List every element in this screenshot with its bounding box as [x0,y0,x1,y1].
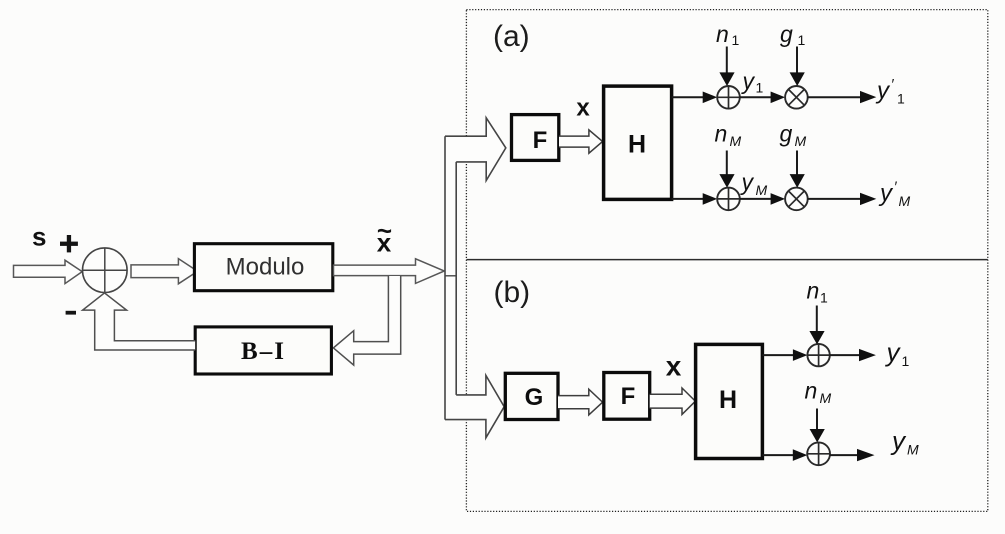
wire: G to F arrow (b) [558,389,603,415]
plus sign at summing junction [60,235,78,252]
label nM (a) [715,121,742,150]
wire: H to adder row1 (a) [672,92,718,104]
svg-text:n: n [715,121,728,147]
svg-text:y: y [740,169,755,195]
svg-text:(b): (b) [494,276,531,309]
svg-text:y: y [741,68,756,94]
svg-text:x: x [576,95,590,122]
svg-text:M: M [795,133,807,149]
block H (b) [696,344,763,458]
svg-text:y: y [885,337,902,367]
wire: n1 arrow down (b) [809,306,824,345]
label g1 (a) [780,21,806,48]
svg-text:B–I: B–I [241,338,286,365]
svg-text:x: x [666,351,682,382]
multiplier circle rowM (a) [785,188,808,211]
multiplier circle row1 (a) [785,86,808,109]
block G (b) [505,373,558,419]
svg-text:n: n [805,378,818,404]
label y'1 (a) [875,76,905,107]
label x (a) [576,95,590,122]
label n1 (a) [716,21,740,48]
summing junction circle with plus cross [83,248,128,293]
wire: adder output rowM (b) [830,449,875,461]
wire: B-I output up into summing junction (minus input) [83,293,196,350]
wire: F to H arrow (a) [559,130,603,153]
block H (a) [604,86,672,199]
label gM (a) [780,121,807,150]
node s label [32,222,46,252]
svg-text:1: 1 [897,91,905,107]
wire: Modulo to branch trunk arrow [334,259,445,284]
wire: summing junction to Modulo arrow [131,259,198,284]
wire: nM arrow down (b) [810,409,825,443]
svg-text:H: H [628,131,646,159]
wire: adder to multiplier row1 (a) [740,92,785,104]
svg-text:1: 1 [732,32,740,48]
svg-text:1: 1 [756,80,764,96]
label y1 (a) [741,68,764,96]
svg-text:x: x [377,228,392,258]
svg-text:s: s [32,222,46,252]
svg-text:H: H [719,386,737,414]
svg-text:n: n [807,278,820,304]
wire: branch trunk vertical lines [445,136,456,419]
svg-text:Modulo: Modulo [226,253,305,280]
svg-text:M: M [899,193,911,209]
svg-text:M: M [756,182,768,198]
block B-I [195,327,331,374]
wire: branch arrow into (a) [445,118,506,181]
svg-text:′: ′ [892,76,895,93]
label y1 (b) [885,337,910,369]
dotted enclosure box [466,10,987,512]
svg-text:F: F [533,127,548,154]
svg-text:F: F [621,383,636,410]
wire: n1 arrow down (a) [719,47,734,87]
svg-text:1: 1 [820,289,828,305]
svg-text:g: g [780,121,793,147]
divider line between (a) and (b) [466,259,987,261]
label nM (b) [805,378,832,407]
wire: H to adder rowM (a) [672,193,718,205]
wire: F to H arrow (b) [650,388,696,414]
svg-text:g: g [780,21,793,47]
wire: adder to multiplier rowM (a) [740,193,785,205]
label x-tilde [377,216,392,258]
wire: g1 arrow down (a) [790,47,805,87]
svg-text:1: 1 [798,32,806,48]
wire: H to adder rowM (b) [762,449,807,461]
svg-text:M: M [820,390,832,406]
adder circle rowM (b) [807,442,830,465]
adder circle row1 (b) [807,344,829,366]
svg-text:M: M [730,133,742,149]
svg-text:1: 1 [902,353,910,369]
block F (a) [512,115,559,161]
label yM (b) [890,426,919,458]
minus sign below summing junction [66,311,76,315]
wire: gM arrow down (a) [790,151,805,188]
wire: branch arrow into (b) [445,375,504,437]
svg-text:(a): (a) [493,20,530,53]
block Modulo [194,244,332,291]
svg-text:n: n [716,21,729,47]
wire: H to adder row1 (b) [762,349,807,361]
svg-text:G: G [525,384,544,411]
label y'M (a) [878,179,911,210]
adder circle rowM (a) [717,188,740,211]
wire: multiplier output row1 (a) [808,91,877,103]
label yM (a) [740,169,768,198]
wire: input arrow into summing junction [14,260,83,283]
svg-text:y: y [878,180,894,207]
label x (b) [666,351,682,382]
label (a) [493,20,530,53]
svg-text:M: M [907,442,919,458]
wire: branch trunk white underfill [445,118,506,438]
wire: nM arrow down (a) [719,151,734,188]
svg-text:′: ′ [895,179,898,196]
wire: feedback tap down into B-I arrow [333,276,400,365]
block F (b) [604,373,650,420]
label (b) [494,276,531,309]
adder circle row1 (a) [717,86,740,109]
wire: multiplier output rowM (a) [808,193,877,205]
label n1 (b) [807,278,829,306]
svg-text:y: y [890,426,907,456]
svg-text:y: y [875,77,891,104]
wire: adder output row1 (b) [830,349,876,361]
